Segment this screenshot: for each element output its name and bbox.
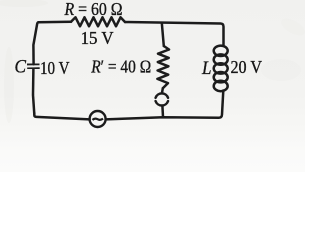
AC source V1: [90, 111, 106, 127]
capacitor C1 plates: [27, 64, 40, 69]
svg-text:L: L: [201, 58, 211, 79]
svg-text:R = 60 Ω: R = 60 Ω: [64, 0, 123, 19]
wire bottom-left segment: [34, 113, 89, 119]
svg-text:10 V: 10 V: [40, 58, 70, 78]
faint left-edge smudge: [4, 47, 14, 123]
svg-text:C: C: [15, 56, 27, 77]
resistor R1 (R = 60 ohm) zigzag: [71, 17, 125, 26]
faint top-left streak: [0, 0, 48, 7]
resistor R2 (R' = 40 ohm) vertical zigzag: [157, 46, 169, 88]
wire middle branch top: [162, 23, 164, 46]
svg-text:15 V: 15 V: [81, 28, 114, 48]
faint top-right smudge: [279, 15, 308, 38]
inductor L1 coil loops: [214, 46, 228, 56]
wire top-right segment: [125, 22, 224, 45]
faint right-side smudge: [261, 59, 301, 81]
wire right-bottom segment: [106, 91, 224, 120]
wire top-left segment: [39, 21, 72, 24]
wire middle stub below circle: [161, 106, 164, 117]
wire middle stub above circle: [161, 88, 164, 93]
svg-text:20 V: 20 V: [231, 57, 263, 77]
meter circle (open sides) middle branch: [156, 93, 168, 97]
wire left segment above capacitor: [33, 22, 38, 64]
svg-text:R′ = 40 Ω: R′ = 40 Ω: [90, 57, 151, 77]
wire left segment below corner: [33, 69, 34, 114]
